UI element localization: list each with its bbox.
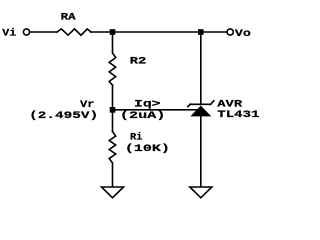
svg-text:(2uA): (2uA): [120, 110, 165, 122]
svg-text:R2: R2: [130, 57, 147, 68]
svg-text:Vi: Vi: [2, 28, 16, 40]
svg-text:Iq>: Iq>: [134, 100, 161, 111]
svg-text:RA: RA: [61, 13, 76, 24]
svg-text:(2.495V): (2.495V): [29, 110, 98, 122]
svg-text:(10K): (10K): [125, 143, 170, 155]
svg-text:AVR: AVR: [217, 99, 242, 110]
svg-text:Vr: Vr: [80, 100, 95, 111]
svg-text:TL431: TL431: [217, 110, 259, 121]
svg-text:Vo: Vo: [235, 29, 251, 40]
svg-text:Ri: Ri: [130, 131, 142, 143]
